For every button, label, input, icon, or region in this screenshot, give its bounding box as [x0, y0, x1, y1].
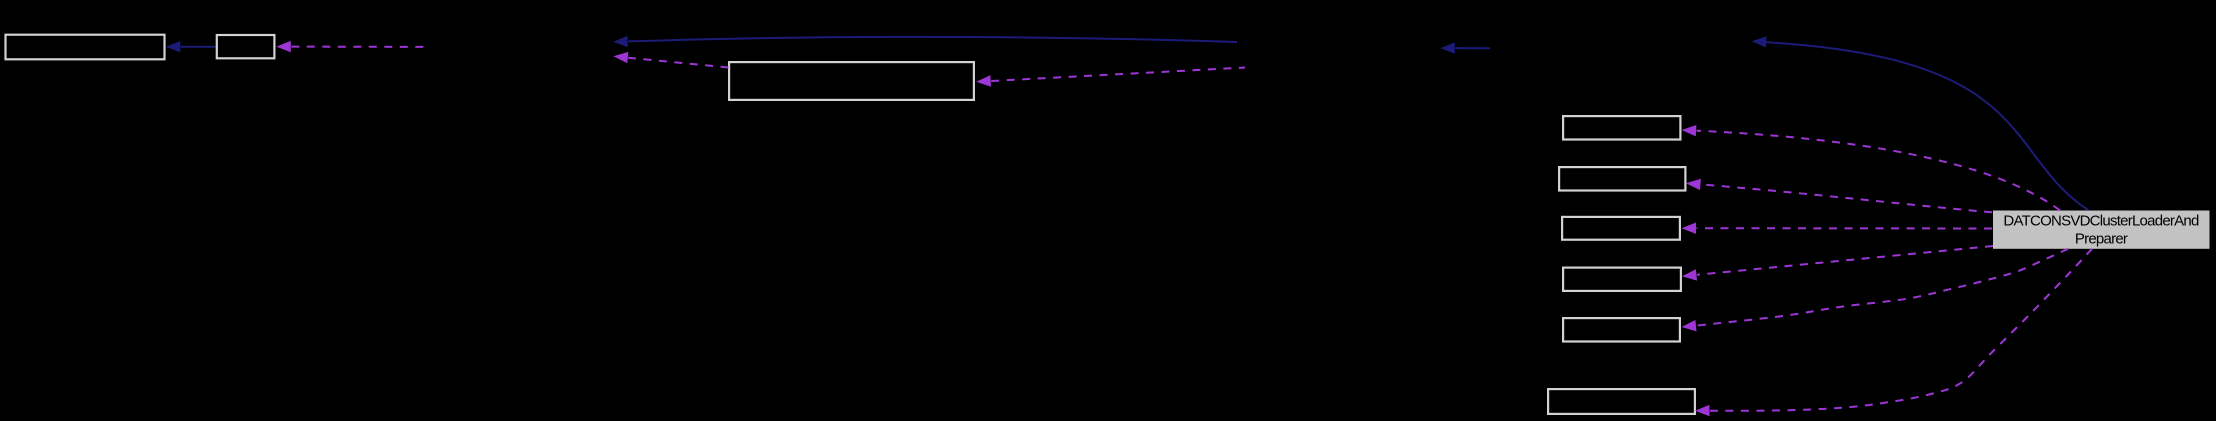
usage edge P7 (DATCONSVD... -> boxD): [1682, 246, 1993, 281]
inheritance edge E2 (blue, long, to invisible node): [613, 36, 1237, 47]
inheritance edge E1 (blue, box2 -> box1): [166, 41, 216, 52]
usage edge P8 (DATCONSVD... -> boxE): [1682, 249, 2069, 332]
usage edge P1 (purple dashed -> box2): [276, 41, 425, 52]
usage edge P3 (purple dashed -> box3 right): [976, 68, 1245, 87]
node boxF (bottom wide box): [1548, 389, 1695, 414]
node boxC (right column 3): [1562, 217, 1680, 240]
node box3 (two-line class box, middle): [729, 62, 974, 100]
usage edge P4 (DATCONSVD... -> boxA): [1682, 125, 2060, 211]
node DATCONSVDClusterLoaderAndPreparer (current class, grey fill): [1993, 211, 2210, 249]
inheritance edge E3 (blue, short): [1440, 42, 1490, 53]
node boxB (right column 2): [1559, 167, 1685, 190]
node boxD (right column 4): [1563, 268, 1681, 291]
svg-text:Preparer: Preparer: [2075, 230, 2128, 247]
node boxE (right column 5): [1563, 318, 1680, 341]
svg-text:DATCONSVDClusterLoaderAnd: DATCONSVDClusterLoaderAnd: [2003, 213, 2199, 230]
usage edge P6 (DATCONSVD... -> boxC): [1682, 223, 1993, 234]
usage edge P2 (purple dashed, box3 -> invisible node): [613, 52, 728, 68]
usage edge P9 (DATCONSVD... -> boxF): [1695, 249, 2092, 416]
node boxA (right column 1): [1563, 116, 1680, 139]
node box2 (small, right of box1): [217, 35, 275, 58]
node box1 (top-left, undocumented class): [6, 35, 165, 60]
inheritance edge E4 (blue curve, DATCONSVD... -> invisible node): [1752, 36, 2088, 210]
usage edge P5 (DATCONSVD... -> boxB): [1686, 179, 1992, 213]
